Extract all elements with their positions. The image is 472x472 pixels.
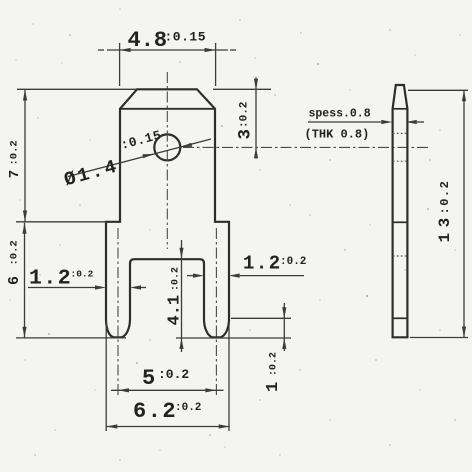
hole in tab [154, 134, 180, 160]
dimension 1 line and arrows [283, 303, 285, 351]
side view hidden hole top [393, 132, 407, 134]
svg-text::0.2: :0.2 [269, 352, 280, 376]
hole leader arrows [142, 154, 154, 158]
dimension 3 extension line [213, 88, 271, 90]
front view outline [106, 89, 229, 337]
svg-text:(THK 0.8): (THK 0.8) [305, 128, 370, 142]
svg-text:1: 1 [264, 382, 283, 392]
dimension 6 line and arrows [24, 223, 26, 338]
svg-text:3: 3 [236, 129, 256, 140]
dimension 13 line and arrows [463, 90, 465, 337]
svg-text::0.2: :0.2 [438, 180, 452, 215]
svg-text::0.2: :0.2 [171, 267, 182, 291]
thickness arrows [381, 120, 392, 124]
main vertical centerline [166, 72, 168, 249]
svg-text:spess.0.8: spess.0.8 [309, 108, 371, 121]
side view hidden hole bottom [393, 160, 407, 162]
dimension 4.1 line and arrows [181, 240, 183, 352]
dimension 5 line and arrows [111, 389, 224, 391]
side view chamfer line [393, 108, 408, 110]
dimension 1 extension lines [231, 317, 291, 319]
side view taper line [393, 317, 408, 319]
extension line at leg tips left [16, 337, 126, 339]
dimension 4.8 line and arrows [107, 49, 228, 51]
dimension 3 line and arrows [255, 78, 257, 158]
side view outline [393, 85, 408, 337]
svg-text:5: 5 [142, 366, 155, 391]
svg-text::0.2: :0.2 [158, 367, 189, 382]
svg-text::0.2: :0.2 [280, 256, 306, 268]
shared extension line at step level [16, 221, 107, 223]
hole horizontal centerline [183, 146, 430, 148]
dimension 6.2 extension lines [105, 322, 107, 431]
svg-text:1.2: 1.2 [243, 253, 282, 275]
thickness leader line [308, 121, 381, 123]
dimension 7 extension line top [17, 88, 137, 90]
svg-text:4.8: 4.8 [128, 28, 168, 53]
tab chamfer base line [120, 108, 215, 110]
svg-text:6.2: 6.2 [133, 399, 177, 424]
dimension 6.2 line and arrows [106, 426, 229, 428]
svg-text::0.2: :0.2 [9, 240, 21, 265]
dimension 1.2 left line and arrows [28, 287, 95, 289]
dimension 7 line and arrows [24, 90, 26, 222]
svg-text:7: 7 [7, 170, 23, 178]
svg-text::0.2: :0.2 [175, 402, 201, 414]
dimension 1.2 right line and arrows [187, 275, 193, 277]
hole leader line [68, 139, 211, 177]
right leg centerline [215, 228, 217, 398]
svg-text:6: 6 [6, 276, 23, 285]
left leg centerline [117, 228, 119, 398]
svg-text:13: 13 [436, 212, 454, 242]
side view step line [393, 221, 408, 223]
svg-text::0.2: :0.2 [71, 269, 94, 280]
dimension 4.8 extension lines [119, 43, 121, 86]
dimension 13 extension lines [408, 89, 468, 91]
side view hidden slot top [393, 255, 407, 257]
svg-text:4.1: 4.1 [166, 295, 185, 326]
svg-text::0.2: :0.2 [9, 140, 21, 165]
svg-text::0.15: :0.15 [165, 30, 207, 45]
svg-text::0.2: :0.2 [239, 102, 251, 128]
